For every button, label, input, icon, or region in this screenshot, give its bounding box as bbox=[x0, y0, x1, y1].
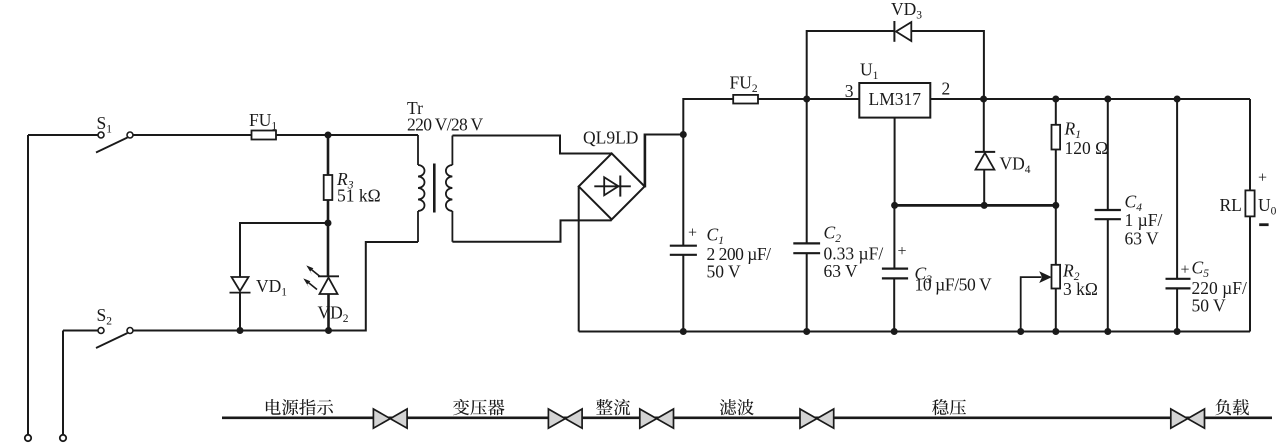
switch S1 bbox=[96, 132, 133, 153]
node: R1/R2 junction bbox=[1052, 202, 1059, 209]
node: junction at R3 top bbox=[325, 132, 332, 139]
node: C5 top bbox=[1174, 96, 1181, 103]
wire: node left and down to VD1 bbox=[240, 223, 328, 277]
R2 wiper arrow bbox=[1021, 277, 1042, 331]
fuse FU1 bbox=[252, 131, 277, 140]
bridge rectifier QL9LD bbox=[579, 153, 645, 219]
wire: secondary top to bridge AC1 bbox=[452, 136, 611, 154]
wire: secondary bottom to bridge AC2 bbox=[452, 220, 611, 241]
node: wiper tie bbox=[1017, 328, 1024, 335]
svg-text:S2: S2 bbox=[97, 305, 113, 328]
transformer Tr primary winding bbox=[418, 135, 425, 242]
svg-text:63 V: 63 V bbox=[1125, 229, 1160, 249]
svg-text:10 µF/50 V: 10 µF/50 V bbox=[915, 275, 993, 295]
transformer Tr secondary winding bbox=[446, 136, 453, 242]
terminal X2 bbox=[60, 435, 66, 441]
fuse FU2 bbox=[733, 95, 758, 104]
svg-text:LM317: LM317 bbox=[869, 89, 922, 109]
svg-text:50 V: 50 V bbox=[1192, 296, 1227, 316]
wire: VD2 to bottom line bbox=[327, 294, 330, 331]
wire: adj rail bbox=[895, 204, 1056, 207]
svg-text:63 V: 63 V bbox=[824, 261, 859, 281]
svg-text:50 V: 50 V bbox=[707, 262, 742, 282]
label regulate 稳压 bbox=[932, 399, 966, 415]
wire: mains left lead down to plug terminal bbox=[27, 135, 29, 434]
transformer core bbox=[433, 164, 436, 213]
load RL bbox=[1245, 99, 1254, 332]
diode VD4 bbox=[975, 99, 995, 205]
LED VD2 bbox=[318, 276, 339, 294]
diode VD1 bbox=[230, 277, 251, 293]
node: VD2 bottom bbox=[325, 327, 332, 334]
node: VD4 bottom bbox=[981, 202, 988, 209]
node: C5 bottom bbox=[1174, 328, 1181, 335]
node: output node VD3/VD4 bbox=[980, 96, 987, 103]
wire: node up to FU2 bbox=[683, 99, 733, 135]
node: C4 bottom bbox=[1104, 328, 1111, 335]
capacitor C1 bbox=[670, 135, 697, 332]
node: R3 bottom junction bbox=[325, 220, 332, 227]
capacitor C2 bbox=[793, 99, 820, 332]
node: R2 bottom bbox=[1052, 328, 1059, 335]
wire: FU2 to LM317 input bbox=[758, 98, 859, 100]
wire: junction down to R3 bbox=[327, 135, 330, 175]
wire: S1 to FU1 bbox=[133, 134, 252, 136]
svg-text:1 µF/: 1 µF/ bbox=[1125, 210, 1163, 230]
valve separator 4 bbox=[800, 409, 834, 428]
svg-text:C5: C5 bbox=[1192, 258, 1210, 281]
svg-text:VD2: VD2 bbox=[318, 303, 349, 326]
capacitor C3 bbox=[882, 205, 908, 331]
svg-text:120 Ω: 120 Ω bbox=[1065, 138, 1109, 158]
svg-text:2: 2 bbox=[942, 79, 951, 99]
terminal X1 bbox=[25, 435, 31, 441]
svg-text:VD3: VD3 bbox=[891, 0, 922, 22]
node: C2 bottom bbox=[803, 328, 810, 335]
wire: LM317 adj pin down bbox=[894, 118, 896, 206]
node: VD1 bottom bbox=[237, 327, 244, 334]
svg-text:3 kΩ: 3 kΩ bbox=[1063, 279, 1098, 299]
valve separator 5 bbox=[1171, 409, 1205, 428]
svg-text:+: + bbox=[898, 243, 907, 260]
potentiometer R2 bbox=[1052, 205, 1061, 331]
node: C4 top bbox=[1104, 96, 1111, 103]
wire: FU1 to transformer primary top bbox=[276, 134, 418, 136]
label load 负载 bbox=[1215, 399, 1249, 415]
label rectify 整流 bbox=[596, 399, 630, 415]
op-amp U1 LM317 regulator box bbox=[859, 83, 930, 118]
capacitor C5 bbox=[1166, 99, 1191, 332]
valve separator 1 bbox=[373, 409, 407, 428]
wire: bridge positive up to C1 node bbox=[645, 135, 684, 187]
svg-text:FU1: FU1 bbox=[249, 110, 277, 133]
svg-text:220 V/28 V: 220 V/28 V bbox=[407, 115, 484, 135]
node: R1 top bbox=[1052, 96, 1059, 103]
wire: bridge negative down to ground rail bbox=[578, 186, 580, 331]
svg-text:QL9LD: QL9LD bbox=[583, 128, 638, 148]
wire: S2 left lead down to plug terminal bbox=[62, 331, 64, 435]
wire: VD3 protection loop bbox=[807, 31, 984, 99]
svg-text:U1: U1 bbox=[860, 60, 879, 83]
svg-text:VD1: VD1 bbox=[256, 276, 287, 299]
svg-text:+: + bbox=[688, 225, 697, 242]
svg-text:U0: U0 bbox=[1258, 195, 1277, 218]
resistor R3 bbox=[324, 175, 333, 200]
node: C1 bottom bbox=[680, 328, 687, 335]
svg-text:3: 3 bbox=[845, 81, 854, 101]
wire: R3 to node bbox=[327, 200, 330, 223]
node: adj node bbox=[891, 202, 898, 209]
svg-text:+: + bbox=[1258, 170, 1267, 187]
svg-text:VD4: VD4 bbox=[1000, 154, 1031, 177]
valve separator 2 bbox=[548, 409, 582, 428]
diode VD3 bbox=[894, 21, 911, 42]
wire: node down to LED VD2 bbox=[327, 223, 330, 276]
svg-text:+: + bbox=[1181, 262, 1190, 279]
wire: ground rail bbox=[579, 331, 1250, 333]
label transformer 变压器 bbox=[453, 399, 505, 415]
svg-text:FU2: FU2 bbox=[730, 73, 758, 96]
valve separator 3 bbox=[640, 409, 674, 428]
switch S2 bbox=[96, 328, 133, 349]
wire: VD1 to bottom line bbox=[239, 293, 241, 331]
wire: to switch S2 bbox=[63, 330, 98, 332]
wire: S2 to transformer primary bottom bbox=[133, 242, 418, 331]
capacitor C4 bbox=[1095, 99, 1121, 332]
resistor R1 bbox=[1052, 99, 1061, 205]
LED VD2 arrows bbox=[309, 270, 321, 290]
flow axis line bbox=[222, 416, 1272, 419]
wire: top lead to switch S1 bbox=[28, 134, 98, 136]
label power-indicator 电源指示 bbox=[266, 399, 333, 415]
label filter 滤波 bbox=[720, 399, 754, 415]
svg-text:C2: C2 bbox=[824, 223, 842, 246]
svg-text:S1: S1 bbox=[97, 113, 113, 136]
node: bridge output / C1 bbox=[680, 131, 687, 138]
wire: LM317 output rail bbox=[930, 98, 1250, 100]
node: input node bbox=[803, 96, 810, 103]
node: C3 bottom bbox=[891, 328, 898, 335]
svg-text:RL: RL bbox=[1220, 195, 1242, 215]
svg-text:51 kΩ: 51 kΩ bbox=[337, 186, 381, 206]
